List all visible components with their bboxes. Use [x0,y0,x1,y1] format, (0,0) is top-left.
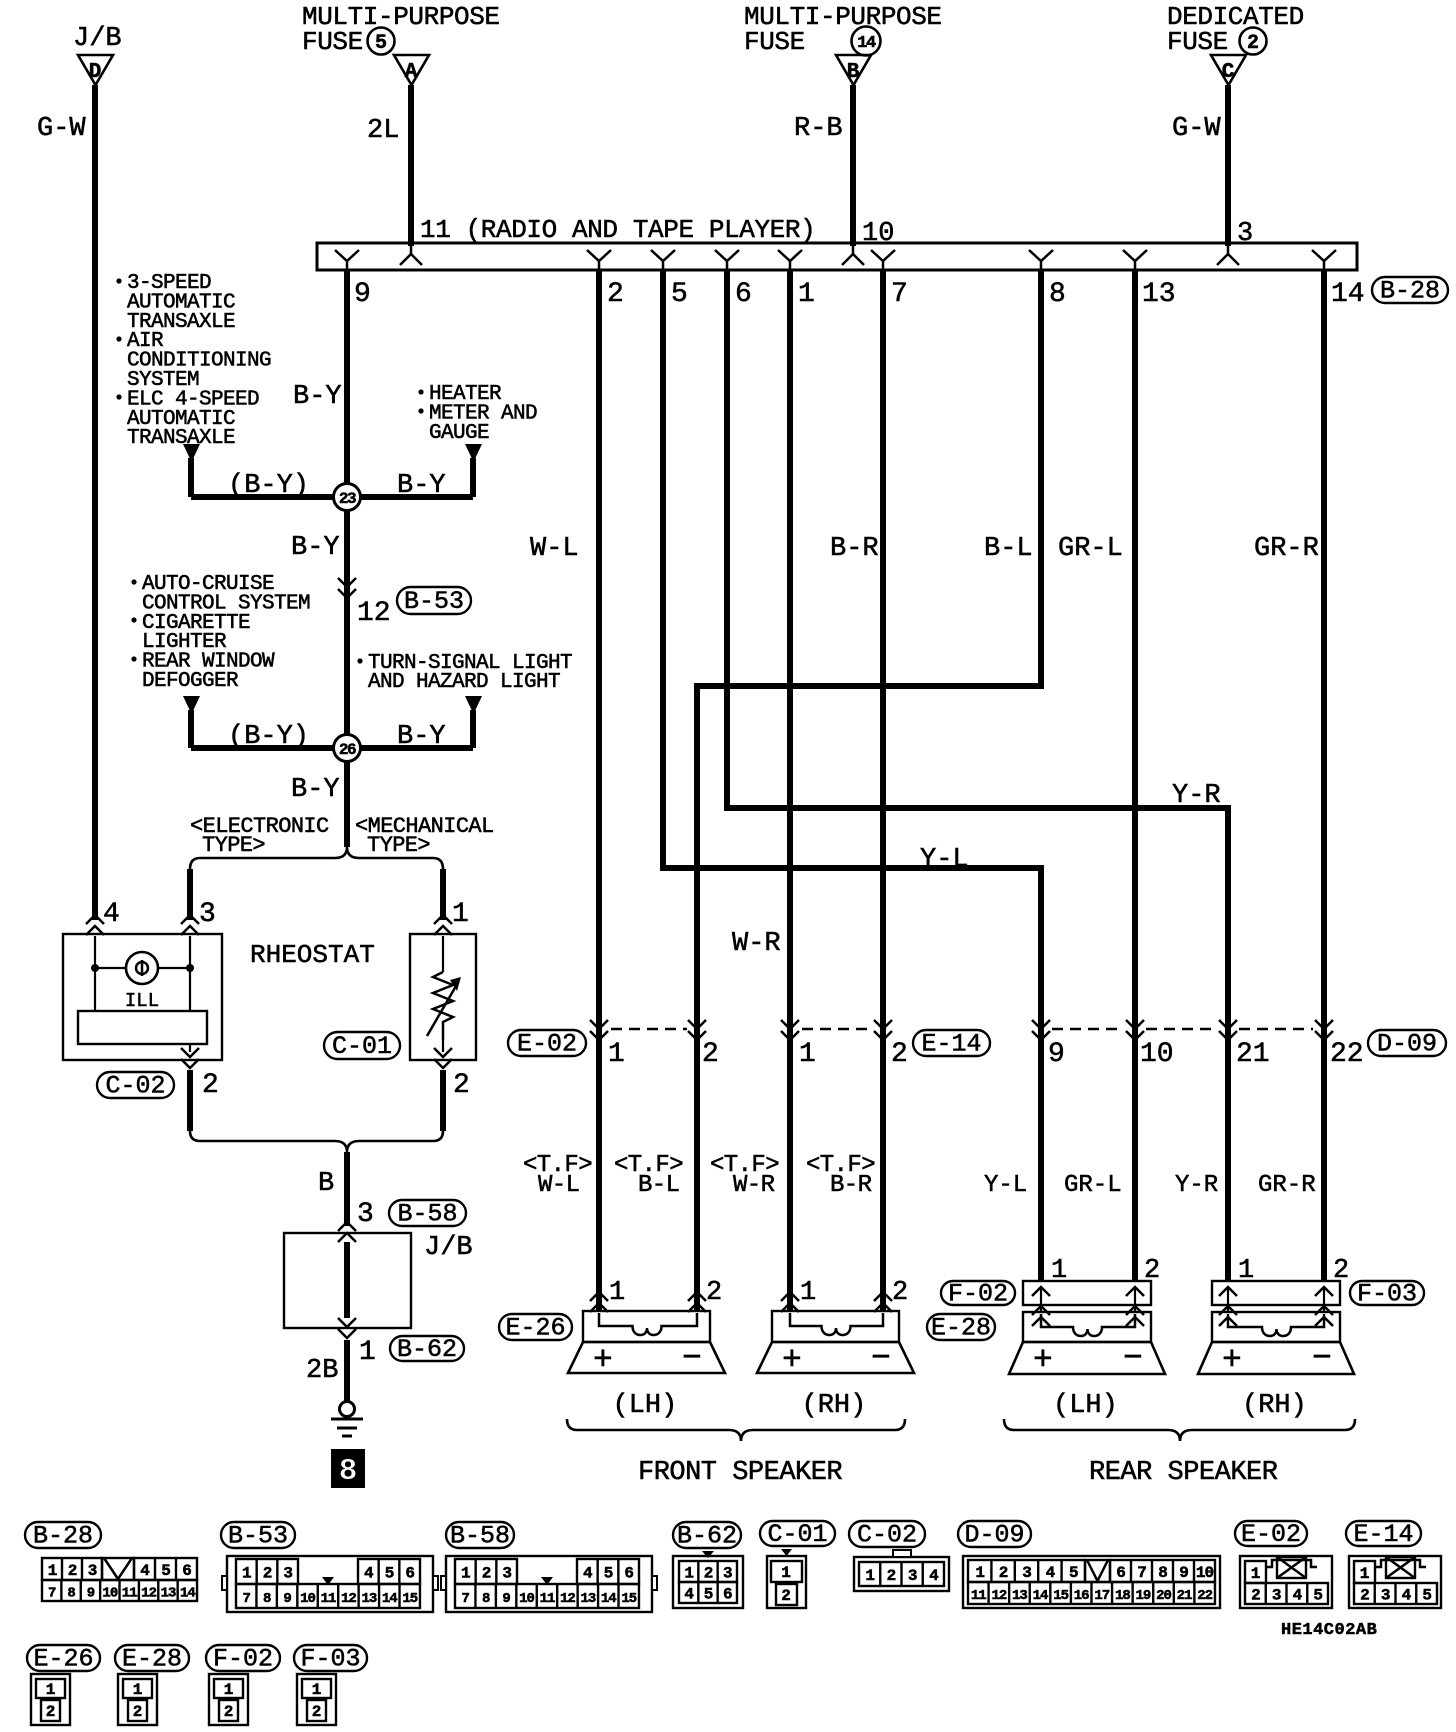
front speaker RH voice-coil box [772,1311,899,1342]
rear speaker RH harness connector box [1212,1281,1340,1305]
svg-text:F-03: F-03 [1357,1280,1417,1309]
power feed triangle C [1211,55,1246,85]
svg-text:(LH): (LH) [1053,1391,1118,1421]
system list turn-signal text [357,658,362,663]
connector tag C-01 [324,1032,400,1059]
svg-text:3: 3 [88,1562,97,1580]
wire 2B to ground [344,1340,350,1402]
rear speaker LH coil entry arrows [1032,1306,1050,1326]
svg-text:A: A [405,61,418,84]
wire B-R radio pin 7 to front speaker RH pin 2 [880,270,886,1311]
ground symbol [340,1402,355,1417]
front speaker RH coil connector arrows [781,1292,799,1312]
inline connector crossing arrow at x=883 [874,1020,892,1040]
svg-text:3: 3 [283,1565,292,1583]
branch wire through junction 26 [191,745,473,751]
svg-text:B-53: B-53 [228,1522,288,1551]
entry arrow into J/B [338,1222,356,1242]
rear speaker LH voice coil [1041,1314,1135,1336]
rear speaker LH voice-coil box [1023,1312,1151,1342]
rear speaker RH coil entry arrows [1219,1306,1237,1326]
svg-text:C-01: C-01 [332,1032,392,1061]
svg-text:5: 5 [385,1565,394,1583]
svg-text:E-28: E-28 [931,1314,991,1343]
svg-text:6: 6 [1116,1564,1125,1582]
svg-text:3: 3 [1022,1564,1031,1582]
wire below C-02 pin 2 [187,1070,193,1131]
radio input pin arrow at x=1228 [1217,246,1239,265]
svg-text:FUSE: FUSE [302,27,363,57]
svg-text:1: 1 [1238,1256,1254,1286]
svg-text:11: 11 [971,1588,986,1604]
svg-text:5: 5 [671,279,688,310]
branch arrowhead to heater/meter [465,444,482,462]
svg-text:3: 3 [908,1567,917,1585]
svg-text:+: + [1222,1342,1242,1379]
rheostat (mechanical type) box C-01 [410,934,476,1060]
svg-text:RHEOSTAT: RHEOSTAT [250,940,375,970]
svg-text:B: B [847,61,860,84]
svg-text:13: 13 [1142,279,1176,310]
svg-text:13: 13 [361,1591,376,1607]
svg-text:17: 17 [1094,1588,1109,1604]
svg-text:(B-Y): (B-Y) [228,471,309,501]
wire GR-R radio pin 14 to rear speaker RH pin 2 [1321,270,1327,1281]
branch arrowhead to turn-signal [465,696,482,714]
exit arrow C-02 pin 2 [189,1044,191,1052]
connector tag B-53 pinout [221,1522,295,1548]
svg-text:19: 19 [1136,1588,1151,1604]
connector tag F-02 [941,1281,1015,1305]
connector B-58 pinout drawing [441,1556,657,1612]
radio output pin arrow at x=347 [335,250,359,269]
branch arrowhead to auto-cruise systems [183,696,200,714]
svg-text:6: 6 [723,1586,732,1604]
svg-text:E-28: E-28 [122,1645,182,1674]
svg-text:B-L: B-L [638,1172,679,1199]
svg-text:26: 26 [339,741,356,759]
svg-text:B-R: B-R [830,1172,872,1199]
svg-text:4: 4 [1046,1564,1056,1582]
svg-text:+: + [782,1342,802,1379]
svg-text:9: 9 [1179,1564,1188,1582]
connector B-62 pinout drawing [673,1556,743,1608]
svg-text:FRONT SPEAKER: FRONT SPEAKER [638,1458,842,1488]
connector F-02 pinout drawing [209,1674,248,1725]
svg-text:10: 10 [102,1586,117,1602]
svg-text:(B-Y): (B-Y) [228,722,309,752]
svg-text:2L: 2L [367,116,399,146]
inline connector dashed line D-09 [1052,1028,1124,1031]
svg-text:9: 9 [1048,1039,1065,1070]
svg-text:7: 7 [48,1586,56,1602]
svg-text:4: 4 [140,1562,150,1580]
radio and tape player unit connector box B-28 [317,243,1357,270]
svg-text:1: 1 [242,1565,251,1583]
connector F-03 pinout drawing [297,1674,336,1725]
wire Y-L radio pin 5 to rear speaker LH pin 1 [663,270,1041,1281]
connector tag E-28 pinout [115,1645,189,1671]
svg-text:5: 5 [1313,1587,1322,1605]
connector B-28 pinout drawing [42,1558,102,1580]
svg-text:5: 5 [1069,1564,1078,1582]
connector tag F-02 pinout [206,1645,280,1671]
svg-text:2: 2 [68,1562,77,1580]
radio output pin arrow at x=599 [587,250,611,269]
svg-text:B-58: B-58 [450,1522,510,1551]
svg-text:+: + [593,1342,613,1379]
svg-text:C: C [1222,61,1235,84]
svg-text:GAUGE: GAUGE [429,422,489,445]
svg-text:8: 8 [263,1591,271,1607]
entry arrows rheostat C-02 [86,915,104,935]
wire GR-L radio pin 13 to rear speaker LH pin 2 [1132,270,1138,1281]
svg-text:GR-R: GR-R [1258,1172,1316,1199]
svg-text:REAR SPEAKER: REAR SPEAKER [1089,1458,1278,1488]
svg-text:2: 2 [891,1039,908,1070]
svg-text:B-Y: B-Y [397,471,446,501]
svg-text:C-02: C-02 [857,1521,917,1550]
connector tag B-28 pinout [25,1522,101,1548]
wire W-R radio pin 1 to front speaker RH pin 1 [787,270,793,1311]
connector E-14 pinout drawing [1349,1556,1441,1608]
svg-text:13: 13 [1012,1588,1027,1604]
svg-text:4: 4 [103,899,120,930]
svg-text:1: 1 [1251,1565,1261,1583]
svg-text:TYPE>: TYPE> [202,833,265,858]
svg-text:4: 4 [1293,1587,1303,1605]
svg-text:8: 8 [339,1454,358,1489]
svg-text:2: 2 [202,1070,219,1101]
svg-text:12: 12 [357,598,391,629]
svg-text:2: 2 [453,1070,470,1101]
connector tag B-62 [390,1336,464,1361]
svg-text:1: 1 [684,1565,693,1583]
svg-text:2: 2 [1333,1256,1349,1286]
svg-text:2: 2 [1247,32,1259,55]
svg-text:GR-L: GR-L [1064,1172,1122,1199]
inline connector crossing arrow at x=790 [781,1020,799,1040]
rheostat resistive element bar [78,1011,207,1044]
svg-text:22: 22 [1197,1588,1212,1604]
svg-text:2: 2 [1251,1587,1260,1605]
system list text block 2 [131,579,136,584]
svg-text:22: 22 [1330,1039,1364,1070]
svg-text:B-53: B-53 [404,587,464,616]
radio output pin arrow at x=790 [778,250,802,269]
ground reference number 8 [331,1449,365,1488]
front speaker LH speaker cone [568,1342,725,1373]
svg-text:HE14C02AB: HE14C02AB [1281,1621,1377,1640]
connector E-26 pinout drawing [31,1674,70,1725]
svg-text:16: 16 [1074,1588,1089,1604]
svg-text:10: 10 [862,219,894,249]
connector C-01 pinout drawing [767,1556,806,1608]
svg-text:13: 13 [161,1586,176,1602]
svg-text:Y-R: Y-R [1175,1172,1218,1199]
svg-text:11: 11 [321,1591,336,1607]
svg-text:8: 8 [67,1586,75,1602]
svg-text:20: 20 [1156,1588,1171,1604]
connector tag E-14 [913,1030,990,1056]
lamp circuit node dots [91,964,99,972]
svg-text:C-02: C-02 [105,1072,165,1101]
svg-text:W-R: W-R [732,929,781,959]
connector tag E-02 [508,1030,586,1056]
svg-text:B-28: B-28 [1380,277,1440,306]
svg-text:DEFOGGER: DEFOGGER [142,670,239,693]
wire to rheostat pin 3 (electronic) [187,869,193,920]
svg-text:E-26: E-26 [505,1314,565,1343]
svg-text:15: 15 [1053,1588,1068,1604]
svg-text:2: 2 [607,279,624,310]
inline connector crossing arrow at x=697 [688,1020,706,1040]
svg-text:B-L: B-L [984,534,1033,564]
wire W-L radio pin 2 to front speaker LH pin 1 [596,270,602,1311]
illumination lamp ILL [126,952,158,984]
rheostat (electronic type) box C-02 [63,934,222,1060]
svg-text:4: 4 [929,1567,939,1585]
rear speaker LH harness connector box [1023,1281,1151,1305]
svg-text:14: 14 [382,1591,397,1607]
svg-text:GR-L: GR-L [1058,534,1123,564]
svg-text:+: + [1033,1342,1053,1379]
svg-text:2: 2 [46,1703,56,1721]
branch arrowhead to 3-speed systems [183,444,200,462]
radio output pin arrow at x=727 [715,250,739,269]
svg-text:−: − [682,1340,702,1377]
svg-text:1: 1 [452,899,469,930]
svg-text:5: 5 [704,1586,713,1604]
connector tag B-62 pinout [673,1522,741,1548]
svg-text:1: 1 [608,1039,625,1070]
svg-text:(LH): (LH) [613,1391,678,1421]
front speaker RH speaker cone [757,1342,914,1373]
connector tag E-26 [499,1314,572,1340]
connector tag E-26 pinout [27,1645,100,1671]
variable resistor symbol [442,936,444,972]
wire below C-01 pin 2 [440,1070,446,1131]
radio output pin arrow at x=1324 [1312,250,1336,269]
rear speaker RH voice coil [1228,1314,1324,1336]
front speaker LH voice coil [599,1313,697,1335]
svg-text:9: 9 [87,1586,95,1602]
svg-text:GR-R: GR-R [1254,534,1319,564]
svg-text:E-02: E-02 [517,1030,577,1059]
svg-text:−: − [1123,1340,1143,1377]
svg-text:F-02: F-02 [948,1280,1008,1309]
svg-text:1: 1 [865,1567,874,1585]
svg-text:J/B: J/B [73,24,122,54]
system list text block 1 [116,278,121,283]
wire G-W from J/B D down to rheostat illumination lamp pin 4 [92,85,98,920]
svg-text:W-L: W-L [538,1172,579,1199]
svg-text:23: 23 [339,490,356,508]
svg-text:2: 2 [706,1278,722,1308]
svg-text:1: 1 [312,1681,322,1699]
svg-text:AND HAZARD LIGHT: AND HAZARD LIGHT [368,671,560,694]
svg-text:1: 1 [800,1278,816,1308]
wire B-L radio pin 8 to front speaker LH pin 2 [697,270,1041,1311]
connector tag B-58 pinout [446,1522,514,1548]
svg-text:1: 1 [46,1681,56,1699]
svg-text:W-R: W-R [733,1172,775,1199]
svg-text:12: 12 [341,1591,356,1607]
svg-text:7: 7 [1137,1564,1146,1582]
svg-text:1: 1 [798,279,815,310]
svg-text:5: 5 [375,32,387,55]
wire B-Y radio pin 9 down to type split [344,270,350,847]
svg-text:1: 1 [359,1337,376,1368]
svg-text:3: 3 [357,1199,374,1230]
svg-text:B-Y: B-Y [397,722,446,752]
connector C-02 pinout drawing [854,1557,949,1591]
svg-text:14: 14 [1033,1588,1048,1604]
svg-text:G-W: G-W [37,114,86,144]
svg-text:(RH): (RH) [1242,1391,1307,1421]
svg-text:6: 6 [735,279,752,310]
inline connector crossing arrow at x=599 [590,1020,608,1040]
svg-text:Y-R: Y-R [1172,781,1221,811]
svg-text:E-26: E-26 [33,1645,93,1674]
inline connector crossing arrow at x=1228 [1219,1020,1237,1040]
svg-text:2: 2 [999,1564,1008,1582]
rear speaker LH speaker cone [1009,1342,1165,1374]
svg-text:TYPE>: TYPE> [367,833,430,858]
rear speaker group brace [1004,1419,1355,1441]
svg-text:2: 2 [224,1703,234,1721]
svg-text:10: 10 [1196,1564,1214,1582]
power feed triangle D [78,55,113,85]
svg-text:−: − [871,1340,891,1377]
svg-text:Y-L: Y-L [984,1172,1027,1199]
svg-text:R-B: R-B [794,114,843,144]
inline connector dashed line E-02 [611,1028,687,1031]
svg-text:14: 14 [857,34,876,53]
entry arrow rheostat C-01 [434,915,452,935]
svg-text:14: 14 [1331,279,1365,310]
wire B from rheostat to J/B [344,1152,350,1226]
svg-text:12: 12 [141,1586,156,1602]
svg-text:B-Y: B-Y [291,533,340,563]
svg-text:2B: 2B [306,1356,338,1386]
connector tag D-09 pinout [958,1521,1031,1547]
svg-text:(RH): (RH) [802,1391,867,1421]
connector tag F-03 [1350,1281,1424,1305]
svg-text:21: 21 [1236,1039,1270,1070]
svg-text:FUSE: FUSE [744,27,805,57]
svg-text:ILL: ILL [125,990,159,1012]
svg-text:5: 5 [161,1562,170,1580]
svg-text:D-09: D-09 [1377,1030,1437,1059]
inline connector crossing arrow at x=1324 [1315,1020,1333,1040]
svg-text:18: 18 [1115,1588,1130,1604]
svg-text:1: 1 [781,1564,791,1582]
exit arrow from J/B [338,1318,356,1338]
wire Y-R radio pin 6 to rear speaker RH pin 1 [727,270,1228,1281]
svg-text:6: 6 [182,1562,191,1580]
connector tag E-28 [927,1314,995,1340]
svg-text:2: 2 [312,1703,322,1721]
svg-text:B-62: B-62 [677,1522,737,1551]
svg-text:7: 7 [243,1591,251,1607]
connector tag C-02 pinout [849,1521,925,1547]
svg-text:9: 9 [354,279,371,310]
radio input pin arrow at x=411 [400,246,422,265]
svg-text:1: 1 [224,1681,234,1699]
rear speaker RH harness connector arrows [1219,1287,1237,1296]
connector tag D-09 [1368,1030,1446,1056]
wire through J/B [344,1242,350,1318]
wire 2L from fuse A to radio pin 11 [408,85,414,246]
system list text block heater/meter [418,389,423,394]
svg-text:12: 12 [991,1588,1006,1604]
svg-text:1: 1 [975,1564,984,1582]
junction block J/B box [284,1233,411,1328]
svg-text:2: 2 [263,1565,272,1583]
svg-text:Y-L: Y-L [920,845,969,875]
svg-text:14: 14 [180,1586,195,1602]
svg-text:G-W: G-W [1172,114,1221,144]
svg-text:6: 6 [405,1565,414,1583]
svg-text:3: 3 [199,899,216,930]
svg-text:11 (RADIO AND TAPE PLAYER): 11 (RADIO AND TAPE PLAYER) [420,215,815,245]
svg-text:2: 2 [133,1703,143,1721]
svg-text:3: 3 [1237,219,1253,249]
svg-text:B-Y: B-Y [293,382,342,412]
svg-text:TRANSAXLE: TRANSAXLE [127,427,235,450]
svg-text:−: − [1312,1340,1332,1377]
svg-text:2: 2 [887,1567,896,1585]
svg-text:3: 3 [1272,1587,1281,1605]
svg-text:2: 2 [702,1039,719,1070]
svg-text:1: 1 [799,1039,816,1070]
connector E-28 pinout drawing [118,1674,157,1725]
svg-text:C-01: C-01 [767,1520,827,1549]
inline connector crossing arrow at x=1135 [1126,1020,1144,1040]
svg-text:2: 2 [781,1587,791,1605]
connector tag C-02 [97,1072,174,1098]
wire G-W from fuse C to radio pin 3 [1225,85,1231,246]
svg-text:B-58: B-58 [397,1200,457,1229]
svg-text:1: 1 [48,1562,57,1580]
connector tag E-14 pinout [1346,1521,1421,1546]
svg-text:B-62: B-62 [397,1335,457,1364]
svg-text:10: 10 [1140,1039,1174,1070]
svg-text:21: 21 [1177,1588,1192,1604]
junction splice 23 [334,484,361,511]
svg-text:11: 11 [122,1586,137,1602]
svg-text:4: 4 [684,1586,694,1604]
connector crossing arrow on B-Y wire (B-53 pin 12) [338,578,356,598]
svg-text:FUSE: FUSE [1167,27,1228,57]
lamp wiring inside box [94,936,96,1011]
connector tag B-53 [397,587,471,614]
power feed triangle B [836,55,871,85]
connector tag B-28 [1372,277,1448,303]
wire R-B from fuse B to radio pin 10 [850,85,856,246]
svg-text:E-14: E-14 [921,1030,981,1059]
svg-text:E-02: E-02 [1241,1520,1301,1549]
svg-text:B-R: B-R [830,534,879,564]
radio output pin arrow at x=1041 [1029,250,1053,269]
branch wire through junction 23 [191,494,473,500]
rear speaker RH voice-coil box [1212,1312,1340,1342]
front speaker LH coil connector arrows [590,1292,608,1312]
radio output pin arrow at x=883 [871,250,895,269]
connector tag B-58 [389,1200,466,1226]
svg-text:2: 2 [704,1565,713,1583]
